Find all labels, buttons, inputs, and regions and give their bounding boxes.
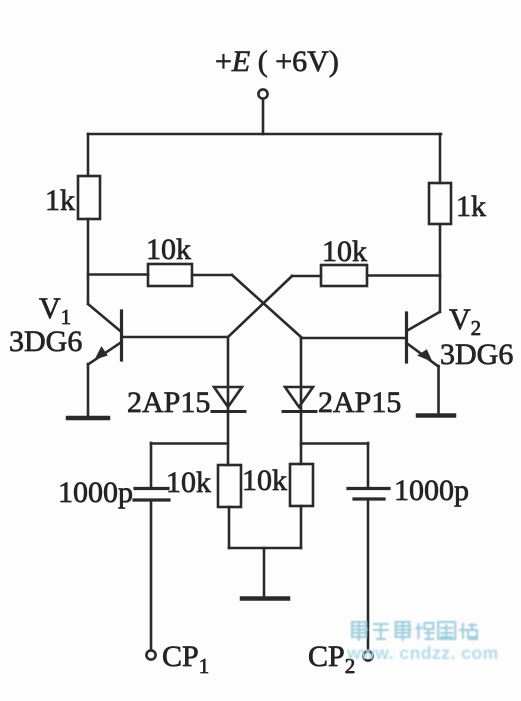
resistor R4 10k right cross-coupling	[321, 265, 367, 286]
label 1000p left	[58, 476, 133, 509]
wire cross diagonal left-to-right	[232, 275, 301, 337]
ground V2 emitter	[418, 413, 454, 418]
resistor R6 10k lower right	[290, 464, 313, 506]
label 10k left upper	[146, 233, 191, 266]
wire V2 emitter down	[437, 366, 440, 414]
label 10k right upper	[322, 235, 367, 268]
wire cross diagonal right-to-left	[228, 276, 292, 337]
label 1k left	[45, 184, 75, 217]
transistor V2	[407, 312, 440, 367]
supply terminal +E	[258, 89, 267, 98]
wire R3 right lead	[192, 274, 232, 277]
ground center	[242, 596, 288, 601]
label 1000p right	[394, 474, 469, 507]
wire V1 base line	[122, 336, 229, 339]
wire R2 to V2 collector node	[439, 224, 442, 312]
terminal CP2	[363, 651, 372, 660]
label CP2	[308, 640, 355, 678]
label 3DG6 right	[440, 338, 513, 371]
wire supply terminal to bus	[262, 99, 265, 134]
node V2 collector junction	[367, 274, 440, 277]
resistor R2 1k right	[429, 183, 451, 224]
diode VD1 2AP15 left	[212, 387, 245, 412]
wire bus to R1	[87, 134, 90, 176]
transistor V1	[88, 304, 122, 365]
label 1k right	[456, 190, 486, 223]
svg-text:www. cndzz. com: www. cndzz. com	[346, 643, 499, 663]
node V1 collector junction	[88, 273, 148, 276]
wire VD2 cathode down	[300, 411, 303, 464]
label 10k lower left	[166, 466, 211, 499]
wire joining R5 R6	[229, 547, 301, 550]
wire node to C1	[151, 442, 228, 445]
label V2	[449, 303, 481, 340]
wire R1 to V1 collector node	[87, 219, 90, 304]
capacitor C1 1000p left	[134, 443, 169, 650]
diode VD2 2AP15 right	[283, 387, 316, 412]
wire bus to R2	[439, 134, 442, 183]
wire V2 base line	[301, 337, 407, 340]
wire V1 emitter down	[87, 364, 90, 416]
label 2AP15 right	[318, 386, 401, 419]
label V1	[39, 292, 71, 329]
ground V1 emitter	[68, 416, 108, 421]
wire VD1 cathode down	[227, 411, 230, 465]
label 3DG6 left	[9, 325, 82, 358]
resistor R3 10k left cross-coupling	[148, 264, 192, 286]
wire R4 left lead	[292, 275, 321, 278]
label 10k lower right	[242, 464, 287, 497]
label 2AP15 left	[127, 386, 210, 419]
wire R6 bottom	[300, 506, 303, 548]
resistor R1 1k left	[78, 176, 100, 219]
wire R5 bottom	[228, 507, 231, 548]
wire to center ground	[263, 548, 266, 596]
resistor R5 10k lower left	[218, 465, 241, 507]
label +E (+6V)	[215, 45, 339, 78]
terminal CP1	[146, 650, 155, 659]
label CP1	[162, 640, 209, 678]
wire top bus	[88, 133, 441, 136]
wire base node to diode VD1	[227, 337, 230, 411]
wire base node to diode VD2	[300, 338, 303, 411]
capacitor C2 1000p right	[348, 443, 389, 651]
wire node to C2	[301, 442, 368, 445]
